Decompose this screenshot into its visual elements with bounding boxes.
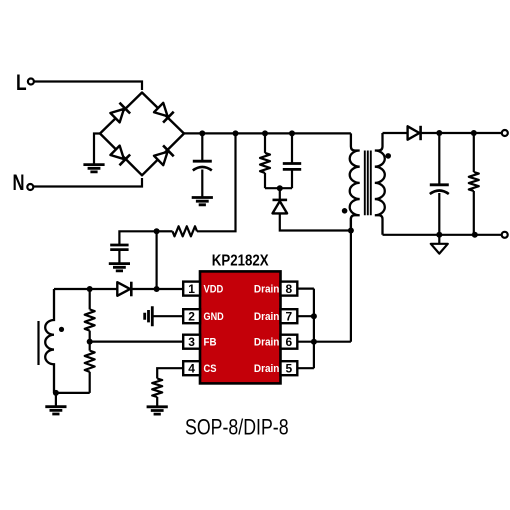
svg-text:KP2182X: KP2182X bbox=[212, 253, 269, 270]
svg-text:8: 8 bbox=[286, 282, 293, 296]
svg-text:3: 3 bbox=[188, 335, 195, 349]
wire secondary to output diode bbox=[383, 132, 408, 134]
svg-text:GND: GND bbox=[204, 311, 224, 323]
wire startup resistor to junction bbox=[157, 230, 173, 232]
wire output cap to rail bbox=[438, 193, 440, 235]
wire snubber cap bottom bbox=[291, 170, 293, 189]
wire bus to bulk cap bbox=[201, 133, 203, 161]
svg-text:Drain: Drain bbox=[254, 337, 280, 349]
terminal N bbox=[27, 184, 33, 190]
wire snubber resistor bottom bbox=[264, 173, 266, 188]
wire CS pin to resistor bbox=[157, 368, 182, 378]
svg-text:Drain: Drain bbox=[254, 311, 280, 323]
node drain-snubber junction bbox=[348, 228, 354, 234]
wire snubber junction to diode bbox=[279, 188, 281, 199]
node bus-startup junction bbox=[233, 130, 239, 136]
svg-text:5: 5 bbox=[286, 361, 293, 375]
node output cap bottom bbox=[436, 232, 442, 238]
resistor startup bbox=[173, 226, 198, 236]
wire bulk cap to ground bbox=[201, 170, 203, 198]
bridge diode D4 (bottom->right) bbox=[153, 145, 173, 165]
diode output rectifier bbox=[408, 126, 420, 139]
wire CS resistor to ground bbox=[156, 397, 158, 407]
wire junction to VDD cap bbox=[119, 231, 156, 245]
capacitor VDD bbox=[110, 245, 128, 250]
wire N to bridge bottom bbox=[34, 178, 142, 187]
wire VDD cap to ground bbox=[118, 250, 120, 264]
resistor CS bbox=[152, 379, 162, 398]
bridge diode D1 (left->top) bbox=[110, 103, 130, 123]
node startup junction bbox=[154, 228, 160, 234]
svg-text:FB: FB bbox=[204, 337, 217, 349]
resistor snubber bbox=[260, 153, 270, 173]
wire bus to snubber cap bbox=[291, 133, 293, 163]
terminal output- bbox=[502, 232, 508, 238]
terminal L bbox=[28, 79, 34, 85]
wire pin6 to primary bbox=[297, 341, 351, 343]
wire output cap drop bbox=[438, 133, 440, 185]
node aux ground junction bbox=[53, 390, 59, 396]
capacitor output (polarized) bbox=[430, 183, 449, 186]
diode VDD (aux to VDD) bbox=[117, 282, 130, 296]
capacitor bulk (polarized) bbox=[193, 160, 212, 163]
wire divider bottom lead bbox=[89, 372, 91, 393]
wire VDD diode to pin1 bbox=[132, 288, 183, 290]
node drain bus pin7 bbox=[311, 313, 317, 319]
ground VDD cap bbox=[109, 264, 130, 271]
wire load resistor top lead bbox=[473, 133, 475, 172]
wire aux bottom rail bbox=[54, 392, 90, 394]
diode snubber (pointing up) bbox=[273, 199, 288, 202]
pin 8 box bbox=[281, 282, 298, 296]
wire main DC bus bbox=[184, 132, 351, 134]
aux winding core line bbox=[37, 321, 39, 365]
svg-text:N: N bbox=[13, 170, 25, 195]
ground GND pin (sideways) bbox=[145, 306, 153, 326]
wire drain bus vertical bbox=[313, 289, 315, 369]
wire GND pin to ground bbox=[152, 315, 182, 317]
transformer primary phase dot bbox=[342, 208, 348, 214]
ground bulk cap bbox=[192, 198, 213, 205]
op-amp U1 KP2182X body bbox=[200, 271, 281, 383]
wire FB to pin3 bbox=[90, 341, 183, 343]
wire bus to snubber resistor bbox=[264, 133, 266, 153]
svg-text:VDD: VDD bbox=[204, 284, 224, 296]
pin 7 box bbox=[281, 309, 298, 323]
aux winding L-aux bbox=[45, 289, 54, 393]
svg-text:7: 7 bbox=[286, 309, 293, 323]
node aux rail - divider junction bbox=[87, 286, 93, 292]
svg-text:CS: CS bbox=[204, 363, 217, 375]
pin 3 box bbox=[183, 335, 200, 349]
ground bridge bbox=[83, 165, 104, 172]
node bus-snubberC junction bbox=[289, 130, 295, 136]
resistor divider upper bbox=[85, 309, 95, 330]
ground output (open triangle) bbox=[431, 244, 448, 254]
node bus-snubberR junction bbox=[262, 130, 268, 136]
capacitor snubber bbox=[283, 164, 301, 170]
svg-text:4: 4 bbox=[188, 361, 195, 375]
svg-text:L: L bbox=[16, 70, 27, 95]
wire snubber diode to primary bbox=[280, 213, 351, 230]
wire output rail top bbox=[421, 132, 502, 134]
pin 4 box bbox=[183, 361, 200, 375]
wire L to bridge top bbox=[34, 82, 142, 91]
node snubber junction bbox=[277, 185, 283, 191]
transformer secondary winding bbox=[375, 133, 385, 235]
svg-text:6: 6 bbox=[286, 335, 293, 349]
svg-text:1: 1 bbox=[188, 282, 195, 296]
wire pin8 to drain bus bbox=[297, 288, 314, 290]
ground CS bbox=[147, 407, 168, 414]
svg-text:Drain: Drain bbox=[254, 284, 280, 296]
pin 6 box bbox=[281, 335, 298, 349]
svg-text:Drain: Drain bbox=[254, 363, 280, 375]
svg-text:2: 2 bbox=[188, 309, 195, 323]
node bus-cap junction bbox=[199, 130, 205, 136]
svg-text:SOP-8/DIP-8: SOP-8/DIP-8 bbox=[185, 415, 289, 440]
node VDD junction bbox=[154, 286, 160, 292]
wire VDD rail bbox=[54, 288, 117, 290]
wire startup junction down to VDD rail bbox=[156, 231, 158, 289]
wire pin7 to drain bus bbox=[297, 315, 314, 317]
bridge rectifier frame bbox=[100, 93, 184, 176]
node FB junction bbox=[87, 339, 93, 345]
wire output rail bottom bbox=[383, 234, 502, 236]
wire output ground lead bbox=[438, 235, 440, 244]
wire snubber RC join bbox=[265, 187, 292, 189]
wire bus down to startup resistor bbox=[197, 133, 236, 231]
node load resistor bottom bbox=[472, 232, 478, 238]
wire bridge left corner to ground bbox=[94, 134, 100, 165]
ground aux bbox=[45, 407, 66, 414]
pin 2 box bbox=[183, 309, 200, 323]
node output cap top bbox=[436, 130, 442, 136]
transformer core bbox=[365, 151, 371, 216]
wire aux ground drop bbox=[55, 393, 57, 407]
transformer primary winding bbox=[350, 133, 360, 230]
wire divider top lead bbox=[89, 289, 91, 309]
node load resistor top bbox=[471, 130, 477, 136]
node drain bus pin6 bbox=[311, 339, 317, 345]
resistor load bbox=[469, 172, 479, 191]
bridge diode D2 (top->right) bbox=[153, 102, 173, 122]
pin 5 box bbox=[281, 361, 298, 375]
pin 1 box bbox=[183, 282, 200, 296]
wire drain to transformer primary bbox=[350, 218, 352, 342]
aux winding phase dot bbox=[59, 327, 64, 332]
wire pin5 to drain bus bbox=[297, 367, 314, 369]
terminal output+ bbox=[502, 130, 508, 136]
wire load resistor bottom lead bbox=[473, 191, 475, 235]
resistor divider lower bbox=[85, 351, 95, 372]
transformer secondary phase dot bbox=[385, 153, 391, 159]
bridge diode D3 (left->bottom) bbox=[110, 145, 130, 165]
wire divider middle bbox=[89, 331, 91, 351]
